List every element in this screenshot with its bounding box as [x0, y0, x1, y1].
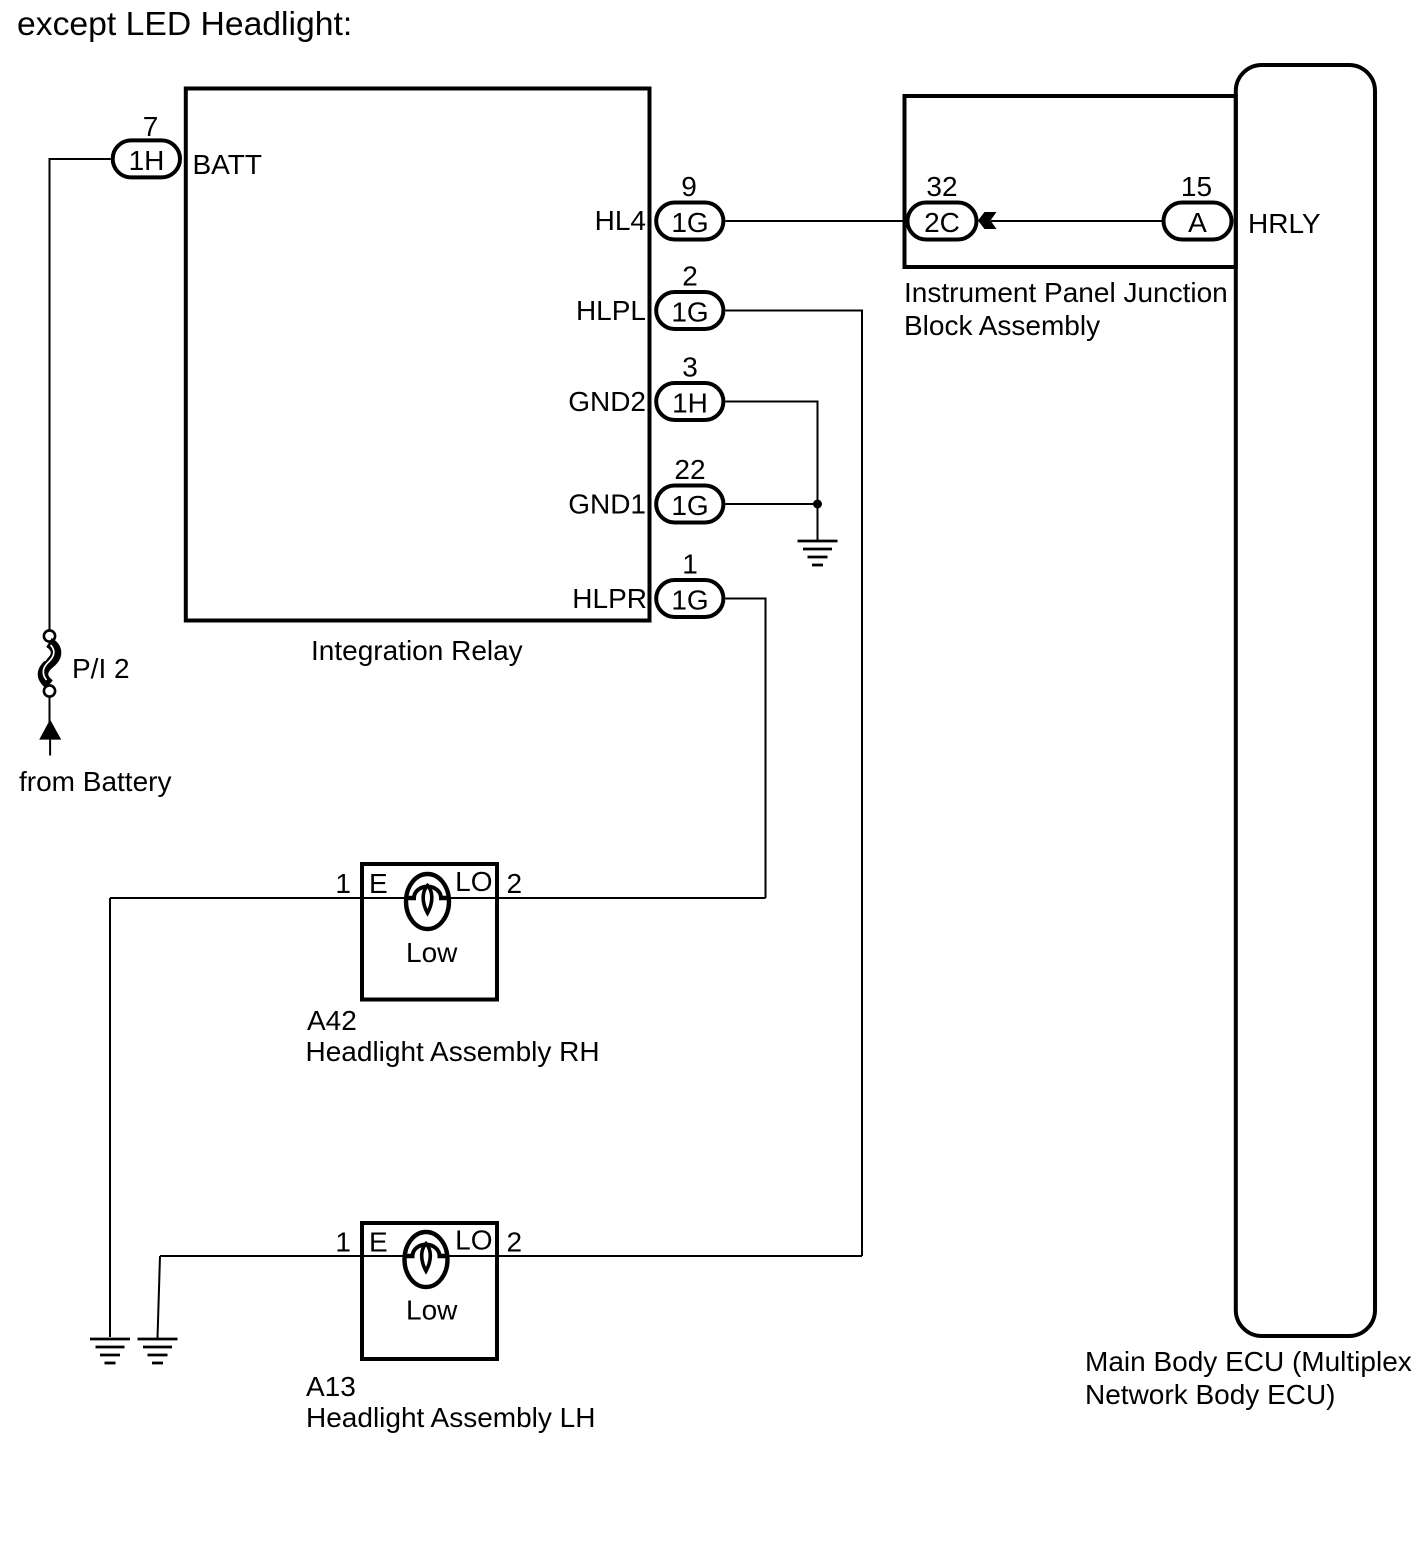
svg-text:7: 7 — [143, 111, 159, 142]
svg-text:Instrument Panel Junction: Instrument Panel Junction — [904, 277, 1228, 308]
wire LH E to ground — [158, 1256, 161, 1338]
svg-text:2: 2 — [507, 868, 523, 899]
wire splice to arrow — [49, 697, 51, 723]
wire HLPR to RH headlight LO — [726, 599, 766, 899]
svg-text:Headlight Assembly LH: Headlight Assembly LH — [306, 1402, 595, 1433]
signal arrow into 2C — [978, 212, 997, 229]
svg-text:Low: Low — [406, 1295, 458, 1326]
svg-text:32: 32 — [926, 171, 957, 202]
splice P/I 2 twisted body — [43, 643, 56, 685]
svg-text:GND1: GND1 — [568, 489, 646, 520]
svg-text:LO: LO — [455, 1225, 492, 1256]
svg-text:Low: Low — [406, 937, 458, 968]
svg-text:Network Body ECU): Network Body ECU) — [1085, 1379, 1336, 1410]
connector 1H pin 3 (GND2) — [656, 383, 723, 420]
wire HL4 to 2C — [726, 220, 907, 222]
svg-text:Headlight Assembly RH: Headlight Assembly RH — [306, 1036, 600, 1067]
svg-text:1H: 1H — [129, 145, 165, 176]
svg-text:A: A — [1188, 207, 1207, 238]
connector 1G pin 22 (GND1) — [656, 486, 723, 523]
connector A pin 15 — [1164, 203, 1232, 240]
bulb LH low beam — [405, 1232, 448, 1287]
svg-text:1G: 1G — [671, 490, 708, 521]
relay box U1 Integration Relay — [186, 89, 650, 621]
connector 2C pin 32 — [908, 203, 977, 240]
junction dot — [813, 500, 822, 509]
headlight A13 box LH — [362, 1223, 497, 1359]
splice P/I 2 top terminal — [44, 630, 55, 641]
svg-text:P/I 2: P/I 2 — [72, 653, 130, 684]
connector 1H pin 7 (BATT) — [113, 140, 180, 177]
junction block box: Instrument Panel Junction Block Assembly — [905, 96, 1236, 267]
svg-text:Integration Relay: Integration Relay — [311, 635, 523, 666]
connector 1G pin 9 (HL4) — [656, 203, 723, 240]
svg-text:HLPR: HLPR — [572, 583, 647, 614]
svg-text:BATT: BATT — [193, 149, 262, 180]
svg-text:E: E — [369, 1227, 388, 1258]
svg-text:9: 9 — [681, 171, 697, 202]
wire A to 2C — [991, 220, 1162, 222]
svg-text:A13: A13 — [306, 1371, 356, 1402]
svg-text:LO: LO — [455, 866, 492, 897]
svg-text:except LED Headlight:: except LED Headlight: — [17, 5, 352, 43]
arrow from battery (up triangle) — [39, 720, 61, 740]
svg-text:2: 2 — [507, 1227, 523, 1258]
wire LH headlight row — [160, 1255, 862, 1257]
svg-text:1G: 1G — [671, 585, 708, 616]
svg-text:1G: 1G — [671, 297, 708, 328]
svg-text:22: 22 — [674, 454, 705, 485]
bulb RH low beam — [406, 874, 449, 929]
svg-text:1G: 1G — [671, 207, 708, 238]
ground symbol (LH headlight) — [138, 1339, 178, 1363]
ground symbol (GND1/GND2) — [798, 541, 838, 565]
svg-text:1H: 1H — [672, 388, 708, 419]
svg-text:2C: 2C — [924, 207, 960, 238]
svg-text:GND2: GND2 — [568, 386, 646, 417]
svg-text:E: E — [369, 868, 388, 899]
wire GND2 to ground — [726, 402, 818, 505]
svg-text:1: 1 — [335, 868, 351, 899]
wire RH E to ground — [109, 898, 111, 1337]
ground symbol (RH headlight) — [90, 1339, 130, 1363]
svg-text:from Battery: from Battery — [19, 766, 171, 797]
svg-text:15: 15 — [1181, 171, 1212, 202]
svg-text:3: 3 — [682, 352, 698, 383]
svg-text:Main Body ECU (Multiplex: Main Body ECU (Multiplex — [1085, 1346, 1412, 1377]
ECU box: Main Body ECU — [1236, 65, 1375, 1336]
headlight A42 box RH — [362, 864, 497, 1000]
wire below arrow — [49, 740, 51, 756]
connector 1G pin 1 (HLPR) — [656, 580, 723, 617]
wire BATT to battery feed — [50, 159, 111, 630]
svg-text:1: 1 — [335, 1227, 351, 1258]
svg-text:Block Assembly: Block Assembly — [904, 310, 1100, 341]
svg-text:1: 1 — [682, 549, 698, 580]
svg-text:HLPL: HLPL — [576, 295, 646, 326]
connector 1G pin 2 (HLPL) — [656, 292, 723, 329]
wire GND1 to ground — [726, 504, 818, 540]
splice P/I 2 bottom terminal — [44, 685, 55, 696]
wire HLPL to LH headlight LO — [726, 311, 863, 1257]
svg-text:2: 2 — [682, 261, 698, 292]
svg-text:HL4: HL4 — [595, 205, 646, 236]
svg-text:HRLY: HRLY — [1248, 208, 1321, 239]
svg-text:A42: A42 — [307, 1005, 357, 1036]
wire RH headlight row — [110, 897, 766, 899]
